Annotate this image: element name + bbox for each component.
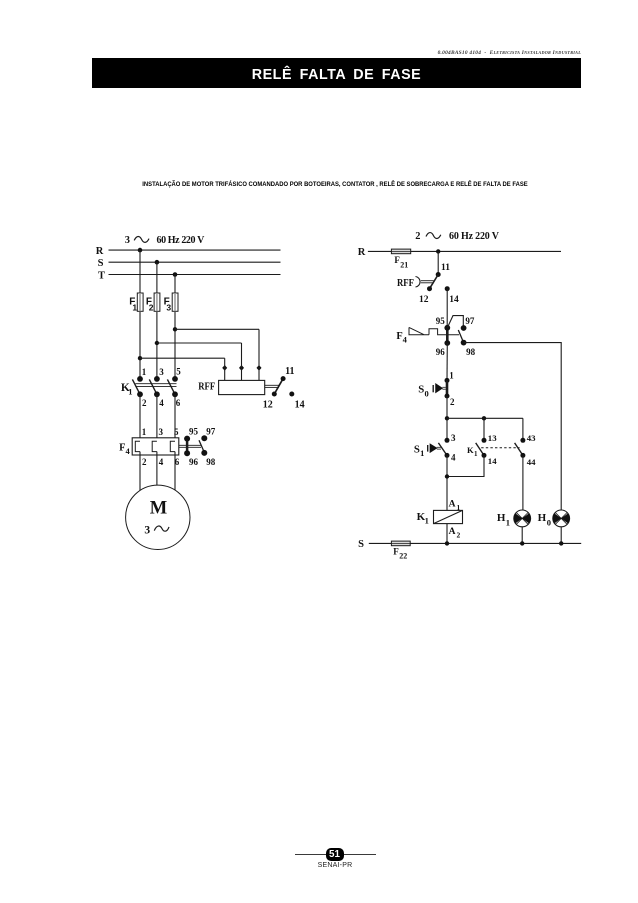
overload relay F4 box xyxy=(132,438,179,455)
svg-text:2: 2 xyxy=(450,397,455,407)
pin 44 xyxy=(520,453,525,458)
junction coil on S rail xyxy=(445,541,449,545)
pin 43 xyxy=(520,438,525,443)
svg-text:RFF: RFF xyxy=(397,278,414,289)
svg-text:3: 3 xyxy=(125,235,130,246)
pin 98 xyxy=(461,340,467,346)
pin 14 xyxy=(482,453,487,458)
pin 14 xyxy=(445,286,450,291)
svg-text:1: 1 xyxy=(128,387,132,397)
pin 13 xyxy=(482,438,487,443)
svg-text:98: 98 xyxy=(206,457,216,467)
RFF terminal pins (diamonds) xyxy=(222,365,227,371)
svg-text:1: 1 xyxy=(420,448,424,458)
contact blade 98 xyxy=(458,330,463,343)
wire K1 to F4 phase 2 xyxy=(156,394,158,441)
contact poles xyxy=(137,376,143,382)
pin 11 xyxy=(281,376,286,381)
pin 1 xyxy=(445,378,450,383)
svg-text:0: 0 xyxy=(547,517,551,527)
F4 auxiliary linkage xyxy=(179,444,201,446)
contactor coil K1 xyxy=(434,510,463,523)
junction H1 on S rail xyxy=(520,541,524,545)
svg-text:14: 14 xyxy=(449,295,459,305)
svg-text:A: A xyxy=(449,527,456,537)
wire K1 to F4 phase 1 xyxy=(139,394,141,441)
wire 43-branch drop xyxy=(522,418,524,440)
pin 97 xyxy=(461,325,467,331)
svg-text:11: 11 xyxy=(441,263,450,273)
svg-text:3: 3 xyxy=(166,303,171,313)
svg-text:T: T xyxy=(98,270,105,281)
fuse F1 xyxy=(137,293,143,311)
svg-text:11: 11 xyxy=(285,366,294,377)
svg-text:60 Hz 220 V: 60 Hz 220 V xyxy=(449,231,500,242)
svg-text:95: 95 xyxy=(436,316,446,326)
wire bus R xyxy=(109,249,281,251)
svg-text:4: 4 xyxy=(125,446,130,456)
svg-text:K: K xyxy=(467,445,474,455)
svg-text:S: S xyxy=(418,384,424,396)
junction tap phase 1 xyxy=(138,356,142,360)
AC tilde symbol (right) xyxy=(426,233,441,239)
svg-text:21: 21 xyxy=(400,260,408,269)
wire F4 to motor phase 1 xyxy=(139,452,141,492)
svg-text:3: 3 xyxy=(159,427,164,437)
tiny running head xyxy=(438,50,581,56)
button actuator xyxy=(436,384,443,393)
pin 96 xyxy=(444,340,450,346)
footer text SENAI-PR xyxy=(285,862,385,869)
svg-text:4: 4 xyxy=(403,334,408,344)
svg-text:S: S xyxy=(358,539,364,550)
K1 aux contact 43-44 xyxy=(515,433,537,467)
blades xyxy=(132,379,140,394)
svg-text:44: 44 xyxy=(527,457,536,467)
svg-text:1: 1 xyxy=(142,427,147,437)
fuse F2 xyxy=(154,293,160,311)
svg-text:1: 1 xyxy=(506,517,510,527)
junction on R (control) xyxy=(436,249,440,253)
wire phase 2 drop xyxy=(156,262,158,379)
svg-text:96: 96 xyxy=(189,457,199,467)
svg-text:2: 2 xyxy=(149,303,154,313)
fuse F3 xyxy=(172,293,178,311)
svg-text:4: 4 xyxy=(159,398,164,408)
wire 98 to H0 branch xyxy=(464,343,562,511)
wire to S1 xyxy=(446,418,448,440)
F4 contact blade 95-96 xyxy=(446,328,449,343)
svg-text:3: 3 xyxy=(159,367,164,377)
svg-text:H: H xyxy=(497,512,506,524)
pin 2 xyxy=(445,394,450,399)
motor M xyxy=(126,485,190,549)
wire branch rail xyxy=(447,417,523,419)
svg-text:2: 2 xyxy=(415,231,420,242)
blade xyxy=(446,380,449,396)
wire phase 3 drop xyxy=(174,275,176,379)
wire H1 to S rail xyxy=(521,527,523,544)
junction on R xyxy=(138,248,143,253)
subtitle xyxy=(27,181,638,188)
RFF contact blade 11-12 xyxy=(274,379,283,394)
blade xyxy=(476,443,484,456)
svg-text:2: 2 xyxy=(142,398,147,408)
F4 heater elements xyxy=(135,441,140,451)
linkage bar xyxy=(135,383,176,385)
svg-text:RFF: RFF xyxy=(198,382,215,393)
wire K1 to F4 phase 3 xyxy=(174,394,176,441)
svg-text:6: 6 xyxy=(176,398,181,408)
svg-text:3: 3 xyxy=(144,524,150,536)
AC tilde symbol (left) xyxy=(134,236,149,242)
junction node 13-branch xyxy=(482,416,486,420)
K1 aux contact 13-14 xyxy=(476,433,498,466)
wire F4 to motor phase 3 xyxy=(174,452,176,491)
svg-text:12: 12 xyxy=(419,295,429,305)
svg-text:H: H xyxy=(538,512,547,524)
RFF actuator arc xyxy=(416,277,421,288)
pushbutton S0 (NC) xyxy=(433,370,455,407)
wire 14 down to F4 contact xyxy=(446,289,448,328)
wire line S (control) xyxy=(369,542,581,544)
junction node rejoin xyxy=(445,474,449,478)
fuse F21 xyxy=(391,249,410,254)
pin 3 xyxy=(445,438,450,443)
wire 96 down to S0 xyxy=(446,343,448,380)
wire H0 to S rail xyxy=(560,527,562,544)
wire bus S xyxy=(109,261,281,263)
linkage dashed xyxy=(481,447,519,449)
svg-text:1: 1 xyxy=(132,303,137,313)
svg-text:13: 13 xyxy=(488,433,497,443)
svg-text:22: 22 xyxy=(399,552,407,561)
wire 44 to lamp H1 xyxy=(522,455,524,510)
wire S0 to junction xyxy=(446,396,448,418)
svg-text:98: 98 xyxy=(466,347,476,357)
wire coil to S rail xyxy=(446,524,448,544)
svg-text:1: 1 xyxy=(449,370,454,380)
svg-text:12: 12 xyxy=(263,399,273,410)
svg-text:95: 95 xyxy=(189,427,199,437)
junction on T xyxy=(173,272,178,277)
junction node xyxy=(445,416,449,420)
svg-text:14: 14 xyxy=(488,456,497,466)
page number badge xyxy=(326,848,344,862)
title bar xyxy=(92,58,581,88)
svg-text:2: 2 xyxy=(142,457,147,467)
svg-text:0: 0 xyxy=(424,389,428,399)
pin 12 xyxy=(427,286,432,291)
blade xyxy=(515,443,523,456)
svg-text:1: 1 xyxy=(142,367,147,377)
wire tap phase 1 to RFF xyxy=(140,357,225,359)
wire bridge 95-97 xyxy=(447,316,463,328)
svg-text:14: 14 xyxy=(295,399,305,410)
F4 aux contact 97-98 xyxy=(199,440,204,452)
pin 12 xyxy=(272,392,277,397)
junction tap phase 2 xyxy=(155,341,159,345)
lamp H0 xyxy=(553,510,570,527)
svg-text:96: 96 xyxy=(436,347,446,357)
junction on S xyxy=(155,260,160,265)
svg-text:1: 1 xyxy=(425,516,429,526)
pin 4 xyxy=(445,453,450,458)
label: 3-phase 60Hz 220V xyxy=(125,235,205,246)
svg-text:S: S xyxy=(414,443,420,455)
svg-text:R: R xyxy=(96,246,104,257)
svg-text:A: A xyxy=(449,499,456,509)
RFF contact blade 11-12 xyxy=(430,275,439,289)
title text xyxy=(92,67,581,83)
RFF output contact linkage xyxy=(265,384,279,386)
wire tap phase 2 to RFF xyxy=(157,342,242,344)
contactor K1 main contacts xyxy=(132,366,181,408)
svg-text:R: R xyxy=(358,247,366,258)
svg-text:60 Hz 220 V: 60 Hz 220 V xyxy=(157,235,206,246)
blade xyxy=(438,443,447,456)
phase-failure relay RFF box xyxy=(219,380,265,394)
wire F4 to motor phase 2 xyxy=(156,452,158,486)
pin 95 xyxy=(444,325,450,331)
wire bus T xyxy=(109,274,281,276)
button actuator xyxy=(430,444,437,453)
pushbutton S1 (NO) xyxy=(428,433,456,463)
label: 2-wire 60Hz 220V xyxy=(415,231,499,242)
junction H0 on S rail xyxy=(559,541,563,545)
wire S1/K1 rejoin rail xyxy=(447,455,484,476)
pin 14 xyxy=(289,392,294,397)
F4 thermal element symbol xyxy=(409,327,459,334)
RFF actuator linkage xyxy=(421,280,434,282)
junction tap phase 3 xyxy=(173,327,177,331)
svg-text:4: 4 xyxy=(159,457,164,467)
wire tap phase 3 to RFF xyxy=(175,328,259,330)
svg-text:2: 2 xyxy=(457,530,461,539)
svg-text:5: 5 xyxy=(174,427,179,437)
pin 11 (RFF contact) xyxy=(436,272,441,277)
svg-text:4: 4 xyxy=(451,453,456,463)
svg-text:97: 97 xyxy=(465,316,475,326)
wire RFF pin stubs xyxy=(224,358,226,380)
svg-text:S: S xyxy=(98,258,104,269)
wire phase 1 drop xyxy=(139,250,141,379)
wire drop to pin 11 xyxy=(437,251,439,274)
footer rule xyxy=(295,854,376,855)
svg-text:M: M xyxy=(150,498,167,518)
svg-text:97: 97 xyxy=(206,427,216,437)
svg-text:1: 1 xyxy=(474,450,478,458)
wire 13-branch drop xyxy=(483,418,485,440)
wire line R (control) xyxy=(368,250,561,252)
wire S1 down xyxy=(446,455,448,510)
svg-text:43: 43 xyxy=(527,433,536,443)
lamp H1 xyxy=(514,510,531,527)
fuse F22 xyxy=(391,541,410,546)
svg-text:3: 3 xyxy=(451,433,456,443)
svg-text:5: 5 xyxy=(176,366,181,376)
F4 aux contact 95-96 xyxy=(186,439,189,454)
